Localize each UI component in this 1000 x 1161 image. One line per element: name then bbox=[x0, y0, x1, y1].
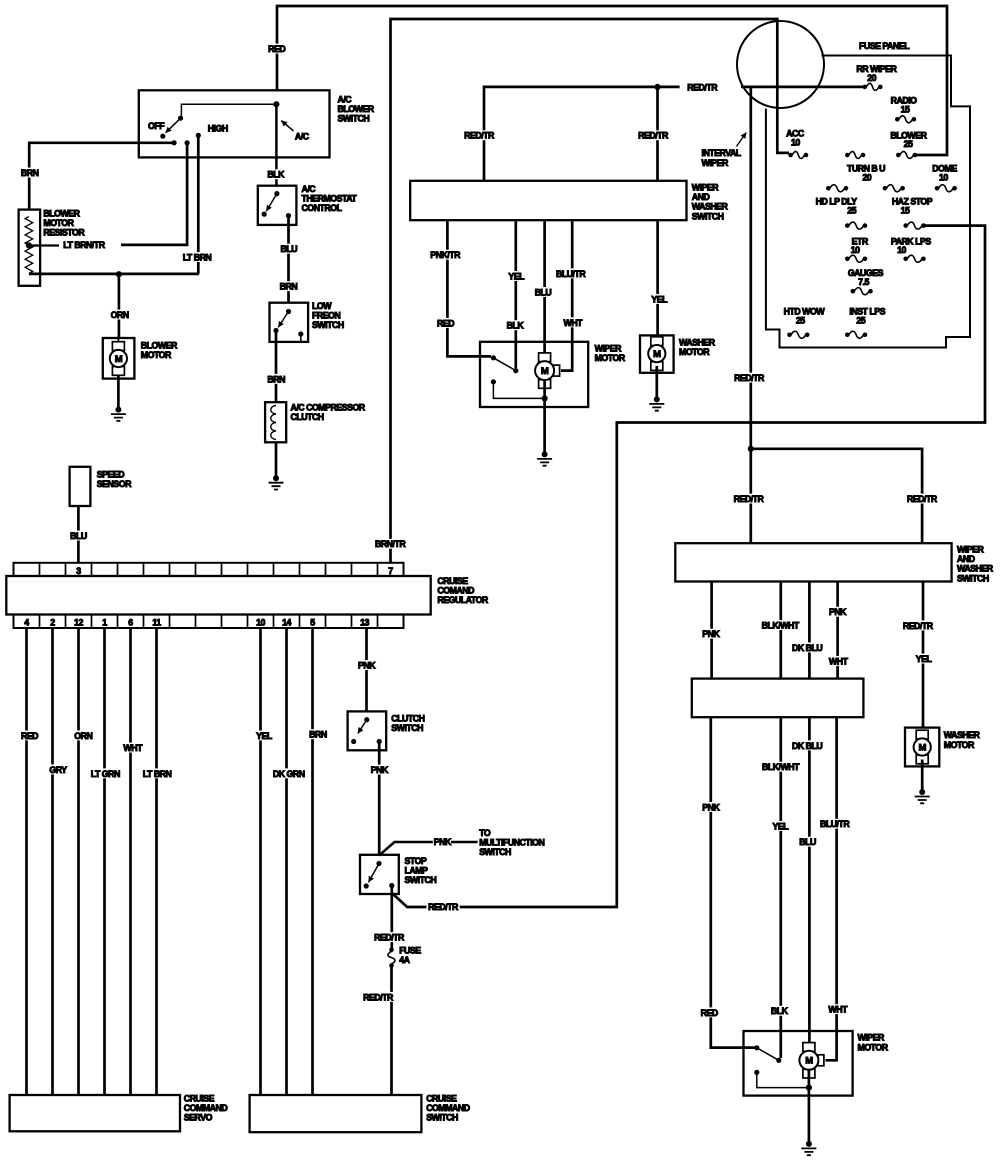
wire RED/TR (stop lamp switch to PARK LPS fuse) bbox=[392, 226, 985, 907]
label PNK bbox=[369, 765, 390, 775]
svg-text:SWITCH: SWITCH bbox=[338, 114, 370, 124]
node RED/TR junction bbox=[654, 84, 660, 90]
svg-text:11: 11 bbox=[152, 618, 161, 628]
svg-text:WIPER: WIPER bbox=[692, 183, 719, 193]
svg-text:RED: RED bbox=[268, 44, 285, 54]
wire ORN (regulator to cruise command servo) bbox=[77, 628, 80, 1095]
fuse (unlabeled, middle row) bbox=[845, 153, 850, 158]
svg-text:10: 10 bbox=[791, 138, 800, 148]
svg-text:M: M bbox=[653, 349, 661, 360]
A/C thermostat control bbox=[258, 186, 297, 225]
svg-text:THERMOSTAT: THERMOSTAT bbox=[302, 194, 358, 204]
svg-text:BLU/TR: BLU/TR bbox=[556, 269, 586, 279]
svg-text:ORN: ORN bbox=[74, 731, 92, 741]
wire GRY (regulator to cruise command servo) bbox=[51, 628, 54, 1095]
svg-text:LT GRN: LT GRN bbox=[91, 769, 120, 779]
svg-text:M: M bbox=[541, 366, 549, 377]
label YEL bbox=[650, 294, 669, 304]
label LT BRN bbox=[141, 768, 174, 778]
svg-text:DK BLU: DK BLU bbox=[792, 741, 822, 751]
svg-text:BRN: BRN bbox=[21, 168, 39, 178]
label BRN bbox=[19, 168, 40, 178]
svg-text:RED/TR: RED/TR bbox=[464, 131, 495, 141]
label WHT bbox=[827, 656, 849, 666]
wire blower motor to ground bbox=[117, 376, 120, 410]
switch contact OFF (pole) bbox=[178, 116, 183, 121]
svg-text:CONTROL: CONTROL bbox=[302, 203, 343, 213]
label PNK bbox=[827, 607, 848, 617]
svg-text:CLUTCH: CLUTCH bbox=[291, 412, 324, 422]
svg-text:FUSE: FUSE bbox=[399, 946, 421, 956]
label DK GRN bbox=[271, 768, 306, 778]
svg-text:BLK/WHT: BLK/WHT bbox=[762, 620, 800, 630]
ground (blower motor) bbox=[115, 407, 121, 413]
switch contact HIGH / LT BRN bbox=[196, 133, 201, 138]
wire BLU/TR / WHT (connector to wiper motor) bbox=[826, 717, 837, 1060]
ground (washer motor) bbox=[654, 396, 660, 402]
svg-text:RR WIPER: RR WIPER bbox=[856, 64, 897, 74]
svg-text:MOTOR: MOTOR bbox=[595, 353, 626, 363]
svg-text:LOW: LOW bbox=[312, 301, 332, 311]
wire DK BLU (switch to connector) bbox=[808, 582, 811, 679]
wire RED/TR (fuse 4A to cruise command switch) bbox=[390, 966, 393, 1096]
svg-text:AND: AND bbox=[692, 192, 710, 202]
clutch switch pole contact bbox=[364, 717, 369, 722]
wire washer motor to ground bbox=[921, 760, 924, 793]
low freon second contact bbox=[298, 331, 303, 336]
label PNK bbox=[701, 629, 722, 639]
svg-text:CRUISE: CRUISE bbox=[437, 576, 468, 586]
svg-text:15: 15 bbox=[901, 104, 910, 114]
svg-text:4: 4 bbox=[24, 618, 29, 628]
svg-text:BLK: BLK bbox=[507, 321, 525, 331]
svg-text:WASHER: WASHER bbox=[679, 337, 716, 347]
svg-text:TO: TO bbox=[479, 828, 491, 838]
wiper motor input contact bbox=[754, 1045, 759, 1050]
svg-text:M: M bbox=[115, 354, 123, 365]
ground (wiper motor, interval) bbox=[806, 1141, 812, 1147]
svg-text:YEL: YEL bbox=[508, 271, 525, 281]
svg-text:25: 25 bbox=[904, 139, 913, 149]
wire WHT (regulator to cruise command servo) bbox=[129, 628, 132, 1095]
wire BLU (switch to wiper motor) bbox=[543, 220, 546, 352]
fuse TURN B U left symbol bbox=[826, 186, 831, 191]
wiper motor bbox=[480, 342, 588, 407]
label PNK bbox=[356, 660, 377, 670]
node wiper motor ground junction bbox=[542, 395, 548, 401]
svg-text:RED/TR: RED/TR bbox=[428, 902, 459, 912]
svg-text:PNK: PNK bbox=[702, 802, 720, 812]
label DK BLU bbox=[790, 643, 824, 653]
cruise command servo bbox=[10, 1095, 180, 1131]
svg-text:YEL: YEL bbox=[772, 821, 789, 831]
washer motor (interval) bbox=[905, 728, 939, 767]
node wiper motor ground junction bbox=[806, 1085, 812, 1091]
svg-text:RED/TR: RED/TR bbox=[903, 621, 934, 631]
ground (A/C compressor clutch) bbox=[273, 475, 279, 481]
node RED/TR junction (interval wiper) bbox=[748, 446, 754, 452]
wiper motor (interval) bbox=[744, 1031, 853, 1096]
speed sensor bbox=[70, 467, 91, 506]
wiper motor common contact bbox=[776, 1058, 781, 1063]
svg-text:13: 13 bbox=[360, 618, 369, 628]
label BLK bbox=[505, 320, 525, 330]
svg-text:SPEED: SPEED bbox=[97, 469, 124, 479]
svg-text:BLU/TR: BLU/TR bbox=[820, 819, 850, 829]
svg-text:A/C: A/C bbox=[302, 184, 317, 194]
label RED/TR bbox=[361, 992, 394, 1002]
svg-text:YEL: YEL bbox=[916, 654, 933, 664]
svg-text:14: 14 bbox=[282, 618, 291, 628]
svg-text:WHT: WHT bbox=[123, 743, 143, 753]
wire PNK (regulator pin 13 to clutch switch) bbox=[365, 628, 368, 711]
blower motor resistor bbox=[19, 210, 40, 286]
svg-text:RED/TR: RED/TR bbox=[363, 992, 394, 1002]
wiper and washer switch bbox=[410, 181, 686, 220]
svg-text:BLU: BLU bbox=[70, 531, 87, 541]
svg-text:CRUISE: CRUISE bbox=[426, 1094, 457, 1104]
svg-text:DK BLU: DK BLU bbox=[792, 643, 822, 653]
label RED/TR bbox=[372, 932, 405, 942]
svg-text:PNK: PNK bbox=[371, 765, 389, 775]
label RED/TR (right drop) bbox=[905, 494, 938, 504]
label RED bbox=[266, 44, 287, 54]
svg-text:WIPER: WIPER bbox=[858, 1033, 885, 1043]
label RED bbox=[435, 318, 456, 328]
thermostat contact (pole) bbox=[274, 191, 279, 196]
wire RED/TR (interval wiper feed) bbox=[749, 87, 752, 543]
stop lamp switch output contact bbox=[389, 883, 394, 888]
wire YEL (switch to washer motor) bbox=[656, 220, 659, 335]
low freon output contact bbox=[273, 328, 278, 333]
fuse 4A bbox=[389, 948, 394, 953]
svg-text:FUSE PANEL: FUSE PANEL bbox=[859, 41, 910, 51]
svg-text:A/C COMPRESSOR: A/C COMPRESSOR bbox=[291, 403, 366, 413]
svg-text:COMMAND: COMMAND bbox=[184, 1103, 228, 1113]
svg-text:CLUTCH: CLUTCH bbox=[391, 714, 424, 724]
wire LT GRN (regulator to cruise command servo) bbox=[103, 628, 106, 1095]
wire A/C blower switch internal feed bbox=[181, 104, 276, 116]
label PNK/TR bbox=[429, 250, 462, 260]
svg-text:A/C: A/C bbox=[295, 132, 310, 142]
svg-text:BLOWER: BLOWER bbox=[338, 104, 375, 114]
A/C blower switch bbox=[139, 90, 330, 157]
label YEL bbox=[914, 654, 933, 664]
svg-text:RED: RED bbox=[701, 1008, 718, 1018]
label INTERVAL WIPER with arrow bbox=[736, 133, 746, 147]
label RED/TR bbox=[732, 373, 765, 383]
connector (unlabeled) bbox=[692, 679, 864, 718]
svg-text:15: 15 bbox=[901, 206, 910, 216]
wire BRN/TR (regulator pin 7 to ACC fuse) bbox=[391, 19, 790, 563]
clutch switch lever bbox=[358, 720, 367, 734]
wire BLK/WHT / YEL / BLK (connector to wiper motor common) bbox=[779, 717, 782, 1058]
svg-text:20: 20 bbox=[867, 73, 876, 83]
label PNK bbox=[701, 802, 722, 812]
svg-text:1: 1 bbox=[102, 618, 107, 628]
wire RED/TR / YEL (switch to washer motor) bbox=[922, 582, 925, 728]
svg-text:M: M bbox=[805, 1056, 813, 1067]
svg-text:MOTOR: MOTOR bbox=[944, 740, 975, 750]
svg-text:RED: RED bbox=[21, 731, 38, 741]
svg-text:SERVO: SERVO bbox=[184, 1113, 213, 1123]
svg-text:SWITCH: SWITCH bbox=[391, 723, 423, 733]
fuse panel connector circle bbox=[737, 21, 824, 108]
svg-text:BRN: BRN bbox=[309, 730, 327, 740]
blower motor bbox=[103, 338, 135, 379]
wire BLU (speed sensor to regulator pin 3) bbox=[77, 506, 80, 563]
svg-text:ORN: ORN bbox=[111, 310, 129, 320]
label BRN bbox=[278, 281, 299, 291]
svg-text:RESISTOR: RESISTOR bbox=[43, 228, 85, 238]
svg-text:WIPER: WIPER bbox=[595, 344, 622, 354]
svg-text:M: M bbox=[918, 742, 926, 753]
label BLU/TR bbox=[554, 268, 587, 278]
svg-text:2: 2 bbox=[50, 618, 55, 628]
wire BLU/TR / WHT (switch to wiper motor) bbox=[561, 220, 572, 370]
svg-text:RED/TR: RED/TR bbox=[374, 933, 405, 943]
svg-text:A/C: A/C bbox=[338, 95, 353, 105]
svg-text:7: 7 bbox=[388, 566, 393, 576]
label BLU/TR bbox=[818, 819, 851, 829]
wire compressor clutch to ground bbox=[275, 442, 278, 478]
thermostat output contact bbox=[286, 213, 291, 218]
label LT BRN bbox=[181, 252, 214, 262]
label YEL bbox=[254, 731, 273, 741]
wire ORN (junction to blower motor) bbox=[118, 274, 121, 338]
wire DK BLU / BLU (connector to wiper motor) bbox=[808, 717, 811, 1042]
stop lamp switch pole contact bbox=[376, 861, 381, 866]
label GRY bbox=[48, 765, 69, 775]
wire PNK / RED (connector to wiper motor) bbox=[711, 717, 755, 1047]
svg-text:INST LPS: INST LPS bbox=[849, 307, 885, 317]
label RED bbox=[699, 1007, 720, 1017]
clutch switch output contact bbox=[377, 739, 382, 744]
wiper motor switch lever bbox=[757, 1048, 779, 1061]
svg-text:WASHER: WASHER bbox=[944, 730, 981, 740]
svg-text:BLK: BLK bbox=[771, 1006, 789, 1016]
svg-text:6: 6 bbox=[128, 618, 133, 628]
svg-text:PNK: PNK bbox=[829, 607, 847, 617]
svg-text:RED/TR: RED/TR bbox=[734, 373, 765, 383]
low freon contact (pole) bbox=[286, 309, 291, 314]
wire BLU / BRN (thermostat to low freon switch) bbox=[287, 216, 290, 303]
wire wiper motor to ground bbox=[808, 1070, 811, 1144]
svg-text:HAZ STOP: HAZ STOP bbox=[892, 197, 933, 207]
wire DK GRN (regulator to cruise command switch) bbox=[285, 628, 288, 1095]
regulator top pin row bbox=[14, 563, 404, 576]
wire LT BRN/TR (resistor tap to blower switch) bbox=[29, 244, 59, 246]
svg-text:5: 5 bbox=[310, 618, 315, 628]
ground (washer motor, interval) bbox=[919, 789, 925, 795]
switch contact LT BRN/TR bbox=[185, 140, 190, 145]
svg-text:COMMAND: COMMAND bbox=[426, 1103, 470, 1113]
svg-text:FREON: FREON bbox=[312, 311, 340, 321]
clutch coil bbox=[271, 406, 276, 440]
wire RED (A/C blower switch feed, top run to BLOWER fuse) bbox=[277, 6, 947, 155]
svg-text:DK GRN: DK GRN bbox=[273, 769, 305, 779]
wiper motor input contact bbox=[491, 355, 496, 360]
thermostat lever bbox=[266, 194, 277, 212]
stop lamp switch lever bbox=[369, 864, 380, 883]
wiper motor armature bbox=[803, 1043, 815, 1052]
svg-text:REGULATOR: REGULATOR bbox=[437, 595, 489, 605]
resistor element zigzag bbox=[25, 217, 33, 274]
svg-text:10: 10 bbox=[897, 245, 906, 255]
switch contact BRN bbox=[172, 140, 177, 145]
label RED/TR bbox=[901, 621, 934, 631]
label BLK bbox=[769, 1006, 789, 1016]
label RED bbox=[19, 731, 40, 741]
wire LT BRN (blower switch HIGH to resistor bottom) bbox=[29, 135, 199, 274]
svg-text:BLOWER: BLOWER bbox=[141, 341, 178, 351]
label RED/TR (left drop) bbox=[732, 494, 765, 504]
svg-text:WIPER: WIPER bbox=[702, 158, 729, 168]
label BLK bbox=[266, 169, 286, 179]
cruise command switch bbox=[250, 1095, 422, 1132]
svg-text:RED/TR: RED/TR bbox=[734, 494, 765, 504]
label LT GRN bbox=[89, 768, 122, 778]
svg-text:WIPER: WIPER bbox=[957, 545, 984, 555]
svg-text:CRUISE: CRUISE bbox=[184, 1094, 215, 1104]
wire BLK/WHT (switch to connector) bbox=[779, 582, 782, 679]
svg-text:LT BRN: LT BRN bbox=[143, 769, 172, 779]
svg-text:SWITCH: SWITCH bbox=[479, 847, 511, 857]
wiper motor common contact bbox=[513, 368, 518, 373]
switch lever OFF bbox=[166, 118, 181, 133]
svg-text:AND: AND bbox=[957, 554, 975, 564]
label BLK/WHT bbox=[760, 620, 801, 630]
wiper motor park contact bbox=[491, 379, 496, 384]
svg-text:25: 25 bbox=[856, 316, 865, 326]
A/C compressor clutch bbox=[265, 402, 286, 442]
label RED/TR (right drop) bbox=[636, 130, 669, 140]
svg-text:COMAND: COMAND bbox=[437, 586, 474, 596]
svg-text:MOTOR: MOTOR bbox=[858, 1042, 889, 1052]
svg-text:SWITCH: SWITCH bbox=[405, 875, 437, 885]
svg-text:GRY: GRY bbox=[49, 765, 67, 775]
svg-text:RED/TR: RED/TR bbox=[907, 494, 938, 504]
svg-text:3: 3 bbox=[76, 566, 81, 576]
svg-text:BRN: BRN bbox=[280, 282, 298, 292]
svg-text:10: 10 bbox=[939, 172, 948, 182]
svg-text:BLU: BLU bbox=[535, 287, 552, 297]
label BRN bbox=[266, 374, 287, 384]
svg-text:BLU: BLU bbox=[281, 244, 298, 254]
wire RED/TR (junction to right side of switch) bbox=[751, 449, 922, 543]
svg-text:PNK: PNK bbox=[702, 629, 720, 639]
wire YEL / BLK (switch to wiper motor common) bbox=[514, 220, 517, 368]
svg-text:BLK: BLK bbox=[267, 170, 285, 180]
fuse panel outline bbox=[766, 56, 970, 348]
svg-text:RED/TR: RED/TR bbox=[687, 83, 718, 93]
label YEL bbox=[507, 271, 526, 281]
svg-text:OFF: OFF bbox=[148, 121, 165, 131]
label YEL bbox=[771, 821, 790, 831]
label RED/TR bbox=[426, 902, 459, 912]
wire PNK branch to multifunction switch bbox=[379, 842, 478, 856]
svg-text:BLOWER: BLOWER bbox=[43, 209, 80, 219]
svg-text:20: 20 bbox=[862, 172, 871, 182]
svg-text:BLK/WHT: BLK/WHT bbox=[762, 762, 800, 772]
svg-text:LT BRN: LT BRN bbox=[183, 253, 212, 263]
svg-text:25: 25 bbox=[796, 316, 805, 326]
label BRN/TR bbox=[373, 539, 407, 549]
label BRN bbox=[307, 729, 328, 739]
low freon switch bbox=[270, 303, 309, 342]
wire RED/TR (stop lamp switch to fuse 4A) bbox=[390, 886, 393, 950]
svg-text:SWITCH: SWITCH bbox=[957, 573, 989, 583]
svg-text:12: 12 bbox=[74, 618, 83, 628]
label BLU bbox=[533, 287, 553, 297]
wiper and washer switch (interval) bbox=[675, 543, 951, 581]
svg-text:BRN: BRN bbox=[267, 374, 285, 384]
wire BLK (blower switch to A/C thermostat control) bbox=[275, 104, 278, 185]
wire PNK/TR / RED (switch to wiper motor) bbox=[447, 220, 491, 356]
wire PNK (clutch switch to stop lamp switch) bbox=[378, 742, 381, 855]
clutch switch bbox=[348, 711, 387, 750]
svg-text:WASHER: WASHER bbox=[692, 202, 729, 212]
svg-text:7.5: 7.5 bbox=[858, 277, 869, 287]
svg-text:WHT: WHT bbox=[828, 1005, 848, 1015]
svg-text:RED/TR: RED/TR bbox=[638, 131, 669, 141]
svg-text:WHT: WHT bbox=[829, 656, 849, 666]
svg-text:INTERVAL: INTERVAL bbox=[702, 148, 742, 158]
wire BRN (blower switch to blower motor resistor) bbox=[29, 143, 174, 210]
label WHT bbox=[827, 1004, 849, 1014]
svg-text:SWITCH: SWITCH bbox=[312, 320, 344, 330]
cruise command regulator bbox=[6, 576, 430, 615]
svg-text:MULTIFUNCTION: MULTIFUNCTION bbox=[479, 837, 544, 847]
label BLU bbox=[798, 837, 818, 847]
washer motor bbox=[640, 335, 674, 372]
wiper motor park wire bbox=[757, 1072, 809, 1087]
low freon lever bbox=[278, 312, 288, 328]
svg-text:YEL: YEL bbox=[256, 731, 273, 741]
label BLU bbox=[279, 244, 299, 254]
svg-text:4A: 4A bbox=[399, 955, 410, 965]
svg-text:25: 25 bbox=[847, 206, 856, 216]
svg-text:LAMP: LAMP bbox=[405, 866, 429, 876]
svg-text:10: 10 bbox=[256, 618, 265, 628]
wire wiper motor to ground bbox=[543, 380, 546, 454]
label WHT bbox=[562, 317, 584, 327]
label WHT bbox=[122, 743, 144, 753]
svg-text:WASHER: WASHER bbox=[957, 564, 994, 574]
svg-text:PNK/TR: PNK/TR bbox=[430, 250, 461, 260]
node resistor output junction bbox=[116, 271, 122, 277]
node RED feed junction in A/C blower switch bbox=[273, 101, 279, 107]
svg-text:MOTOR: MOTOR bbox=[679, 347, 710, 357]
wiper motor armature bbox=[539, 353, 551, 362]
svg-text:SWITCH: SWITCH bbox=[692, 211, 724, 221]
regulator bottom pin row bbox=[14, 615, 404, 629]
svg-text:HIGH: HIGH bbox=[208, 124, 228, 134]
svg-text:RED: RED bbox=[437, 318, 454, 328]
label A/C with arrow to wire bbox=[281, 121, 293, 132]
svg-text:STOP: STOP bbox=[405, 856, 427, 866]
wire LT BRN (regulator to cruise command servo) bbox=[155, 628, 158, 1095]
wire BRN (low freon switch to compressor clutch) bbox=[275, 331, 278, 403]
svg-text:MOTOR: MOTOR bbox=[141, 350, 172, 360]
svg-text:YEL: YEL bbox=[651, 294, 668, 304]
svg-text:PNK: PNK bbox=[434, 837, 452, 847]
stop lamp switch bbox=[360, 855, 399, 894]
wire RED (regulator to cruise command servo) bbox=[25, 628, 28, 1095]
wire PNK (switch to connector) bbox=[710, 582, 713, 679]
wire BRN (regulator to cruise command switch) bbox=[311, 628, 314, 1095]
wiper motor park wire bbox=[493, 382, 544, 399]
